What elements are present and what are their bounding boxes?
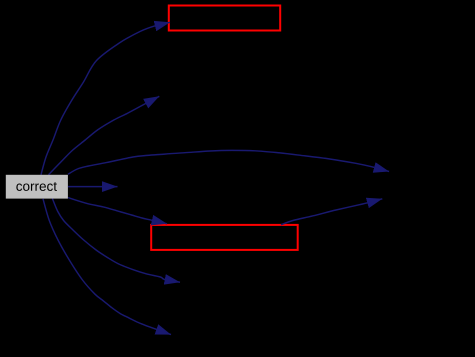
wire correct->node3 — [68, 150, 389, 174]
wire correct->node6 — [52, 199, 180, 283]
wire correct->node1 — [41, 22, 170, 175]
wire correct->node7 — [43, 199, 171, 335]
node correct (grey box) — [6, 175, 68, 199]
wire node5->node3 — [281, 199, 382, 225]
wire correct->node5 — [68, 198, 167, 224]
wire correct->node2 — [49, 96, 160, 175]
node5 red box (lower, truncated callee) — [151, 225, 298, 250]
node1 red box (top, truncated callee) — [169, 6, 280, 31]
wire correct->node4 — [68, 186, 118, 188]
label correct — [16, 182, 57, 191]
